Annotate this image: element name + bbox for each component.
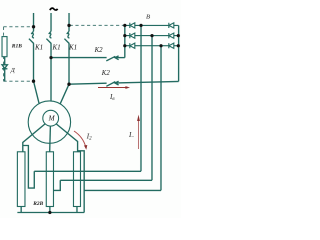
svg-text:K2: K2 <box>94 47 104 54</box>
svg-text:M: M <box>48 115 56 123</box>
svg-text:K1: K1 <box>68 44 77 52</box>
svg-text:Д: Д <box>10 67 16 74</box>
svg-text:R2В: R2В <box>32 201 43 207</box>
svg-text:K1: K1 <box>52 44 61 52</box>
svg-text:K1: K1 <box>34 44 43 52</box>
svg-text:I–: I– <box>128 131 134 140</box>
svg-text:В: В <box>146 13 150 20</box>
svg-text:Iв: Iв <box>109 93 115 102</box>
svg-text:I2: I2 <box>86 132 92 141</box>
svg-text:K2: K2 <box>101 70 111 77</box>
svg-text:R1В: R1В <box>11 43 22 49</box>
